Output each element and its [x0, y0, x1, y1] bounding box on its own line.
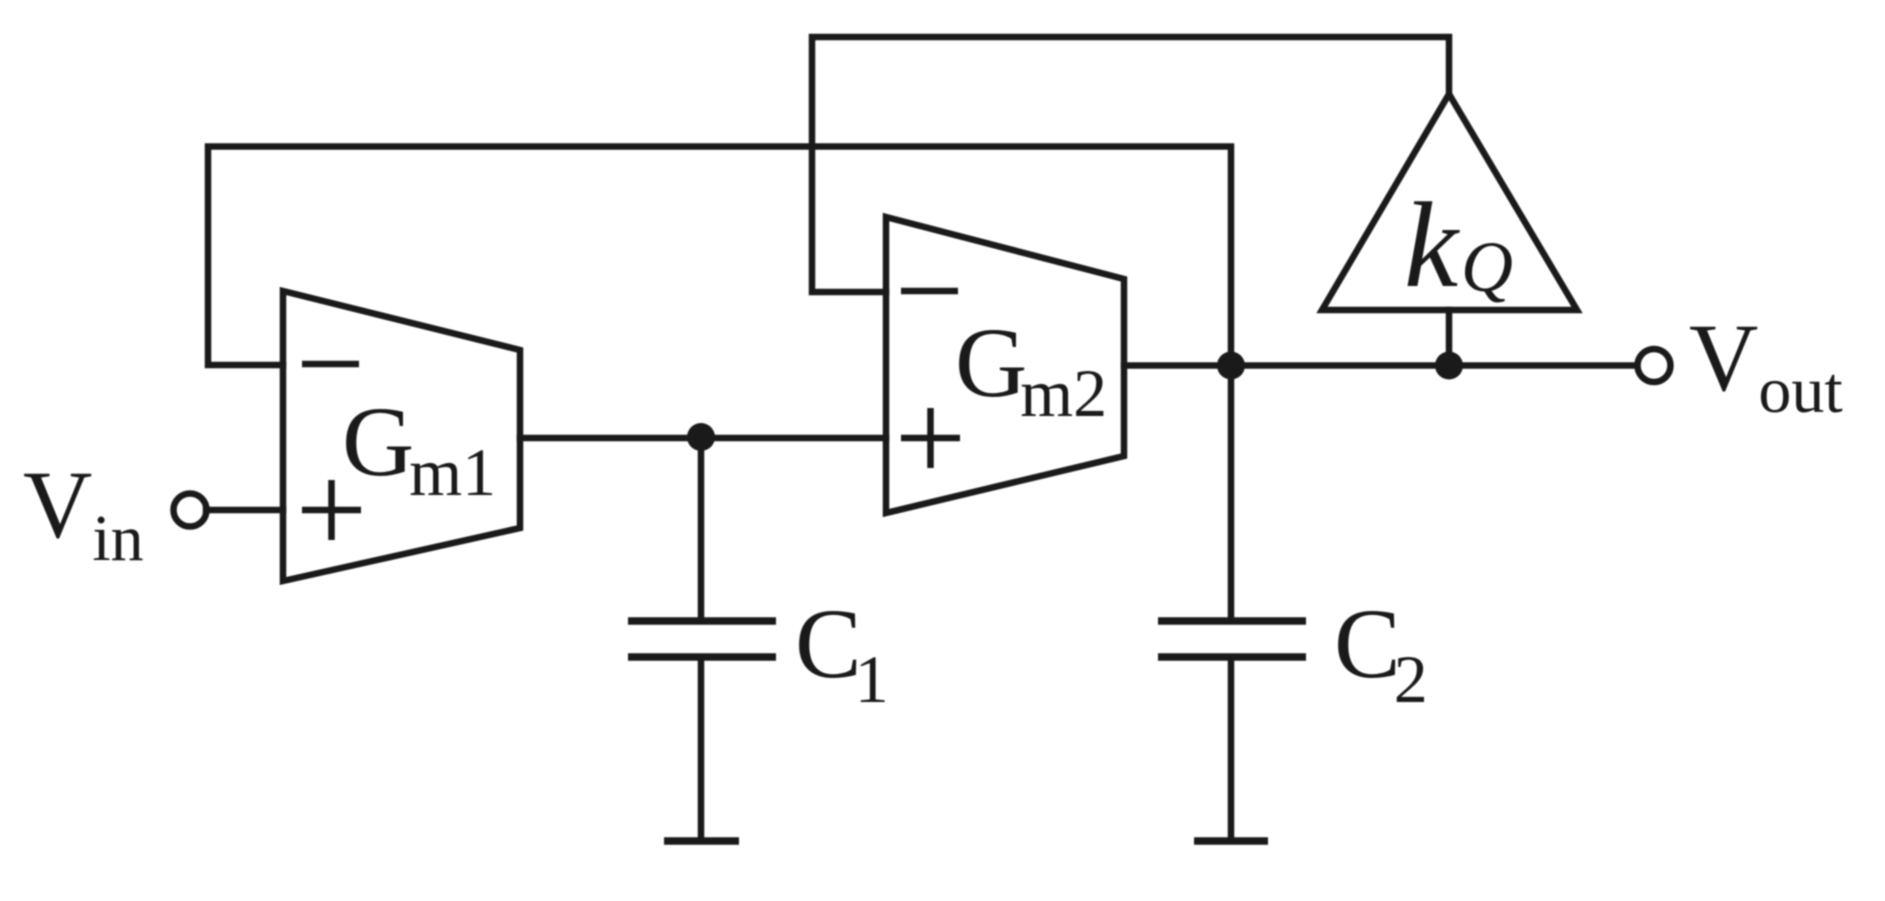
- input terminal Vin: [174, 494, 207, 527]
- node A junction Gm1 output / C1: [687, 423, 715, 451]
- node B junction Gm2 output / C2 / feedback: [1217, 352, 1245, 380]
- Gm2 minus input sign: [901, 288, 958, 295]
- Gm1 minus input sign: [302, 361, 359, 368]
- node C junction kQ / output line: [1435, 352, 1463, 380]
- wire feedback from kQ apex to Gm2 minus input: [812, 37, 1449, 292]
- wire C2 top: [1228, 366, 1235, 622]
- ground below C2: [1194, 837, 1268, 845]
- svg-text:k: k: [1404, 178, 1460, 313]
- amplifier kQ: [1322, 94, 1577, 310]
- capacitor C2: [1158, 621, 1306, 657]
- wire C1 bottom to ground: [698, 657, 705, 841]
- wire C2 bottom to ground: [1228, 657, 1235, 841]
- wire Gm2 output to Vout: [1124, 362, 1637, 369]
- ground below C1: [664, 837, 739, 845]
- Gm2 plus input sign: [901, 408, 960, 468]
- output terminal Vout: [1638, 349, 1671, 382]
- Gm1 plus input sign: [302, 480, 361, 540]
- wire kQ output down to output line: [1446, 310, 1453, 366]
- op-amp U1 transconductor Gm1: [283, 291, 520, 581]
- wire feedback from output node to Gm1 minus input: [208, 147, 1231, 366]
- op-amp U2 transconductor Gm2: [886, 217, 1124, 513]
- wire C1 top: [698, 438, 705, 621]
- wire Vin to Gm1 plus input: [206, 507, 283, 514]
- svg-text:Q: Q: [1461, 227, 1513, 307]
- capacitor C1: [628, 621, 776, 657]
- wire Gm1 output to Gm2 plus input: [520, 435, 886, 442]
